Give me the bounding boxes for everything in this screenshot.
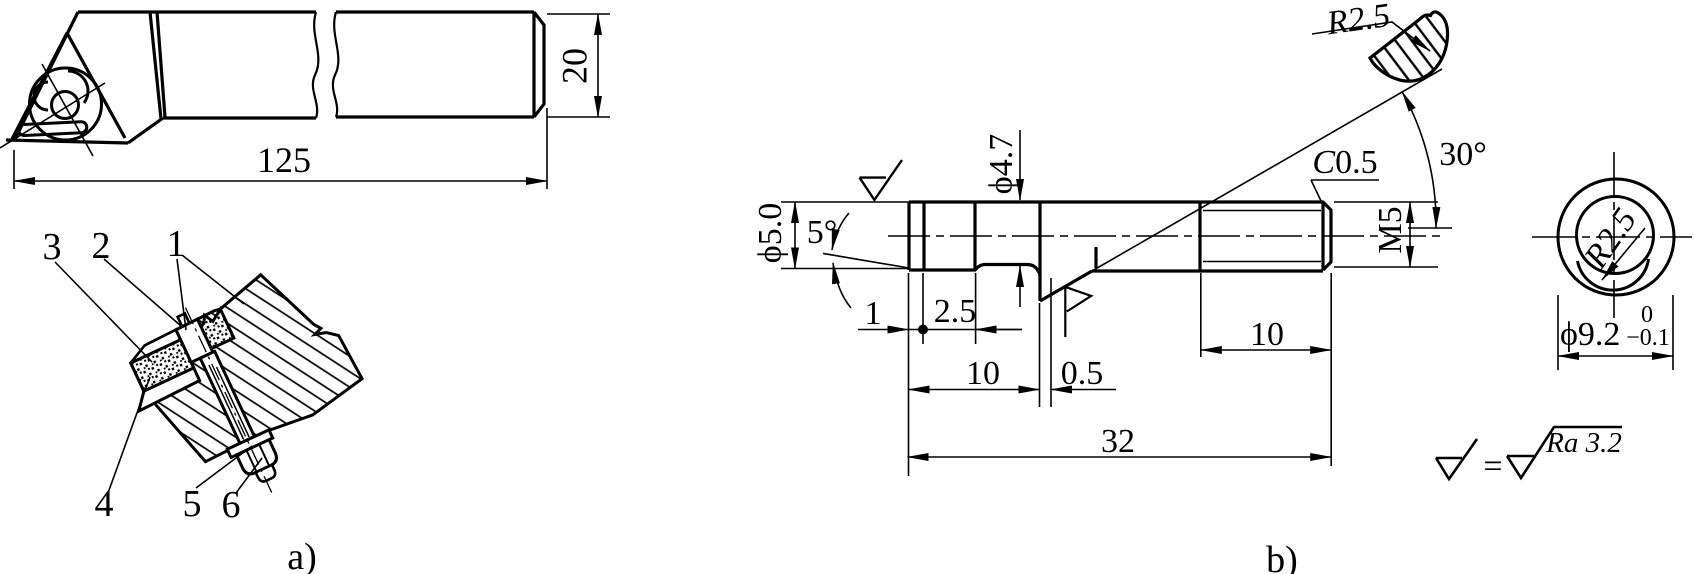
thread minor line top xyxy=(1203,210,1321,212)
break line left xyxy=(313,12,319,118)
legend symbol basic xyxy=(1436,439,1477,479)
screw bottom right xyxy=(1092,269,1323,272)
clamp joint line 1 xyxy=(150,12,161,119)
center line 2 xyxy=(42,64,93,156)
internal edge x1040 xyxy=(1038,202,1041,276)
PART_A_SIDEVIEW xyxy=(0,12,610,189)
dim 20 extension top xyxy=(547,13,610,15)
dim 1-2.5 shared line xyxy=(909,329,1023,331)
svg-text:2: 2 xyxy=(92,225,111,267)
M5 ext top xyxy=(1334,201,1438,203)
leader part4 xyxy=(108,377,150,493)
end view center vertical xyxy=(1613,152,1615,318)
ext x1051 xyxy=(1050,278,1052,407)
clamp wedge part4 xyxy=(132,368,200,411)
svg-text:Ra 3.2: Ra 3.2 xyxy=(1545,427,1622,459)
M5 dim line xyxy=(1409,202,1411,267)
clamp arc left xyxy=(34,82,48,110)
svg-text:a): a) xyxy=(287,536,317,574)
dim 32 line xyxy=(908,456,1332,458)
center line 1 xyxy=(0,83,105,148)
screw left edge xyxy=(907,202,910,270)
end view slant arc xyxy=(1578,259,1649,290)
R2.5 detail hatching xyxy=(1360,5,1455,90)
leader part2 xyxy=(104,259,181,326)
insert circle large xyxy=(30,68,102,140)
R2.5 leader in end view xyxy=(1602,228,1645,280)
svg-text:4: 4 xyxy=(95,483,114,525)
svg-text:−0.1: −0.1 xyxy=(1626,325,1670,351)
PART_B_SCREW xyxy=(781,69,1452,476)
dim 20 line xyxy=(597,14,599,117)
thread start edge xyxy=(1198,202,1201,270)
phi92 ext left xyxy=(1557,295,1559,370)
svg-text:ϕ4.7: ϕ4.7 xyxy=(983,134,1020,194)
screw axis line xyxy=(185,308,272,495)
5deg arc upper xyxy=(832,213,849,250)
dim 0.5 line xyxy=(1051,389,1116,391)
phi5 dim line xyxy=(794,202,796,269)
svg-text:10: 10 xyxy=(966,355,1000,392)
center line xyxy=(888,235,1445,237)
nut facet line 2 xyxy=(259,444,269,465)
screw shaft inner line 1 xyxy=(209,365,244,439)
break line right xyxy=(333,12,339,117)
leader part1 xyxy=(182,255,244,304)
30deg arc xyxy=(1402,92,1436,229)
svg-text:=: = xyxy=(1483,448,1502,485)
PART_A_DETAIL xyxy=(108,253,391,531)
head bottom edge xyxy=(6,140,128,143)
dim 10 thread line xyxy=(1201,349,1331,351)
shank bottom edge left xyxy=(163,116,316,119)
screw bottom left xyxy=(909,265,1040,302)
svg-text:10: 10 xyxy=(1250,316,1284,353)
30deg horizontal ref xyxy=(1408,227,1452,229)
section diagonal thin xyxy=(1092,69,1442,271)
PART_B_RIGHT xyxy=(1312,5,1692,479)
dim 2.5 arrow xyxy=(976,329,1022,331)
nut end cap xyxy=(256,465,277,483)
shim part3 (carbide, stippled) xyxy=(131,340,194,391)
svg-text:125: 125 xyxy=(257,140,311,180)
svg-text:1: 1 xyxy=(865,295,882,332)
insert left edge xyxy=(12,33,67,139)
M5 ext bottom xyxy=(1334,266,1438,268)
surface symbol on slant xyxy=(1065,287,1091,337)
screw shaft inner line 2 xyxy=(217,367,250,437)
leader part3 xyxy=(55,262,152,362)
clamp arc right xyxy=(68,71,88,103)
R2.5 detail shape xyxy=(1370,12,1448,81)
tool shank top edge left xyxy=(78,10,316,13)
body of tool head (hatched section) xyxy=(120,255,367,476)
phi5 ext top xyxy=(781,201,909,203)
nut facet line 1 xyxy=(246,450,256,471)
tool shank top edge right xyxy=(336,10,534,13)
slant small edge xyxy=(1094,247,1097,268)
head bottom bevel xyxy=(128,118,163,143)
washer xyxy=(227,430,272,458)
dim origin dot xyxy=(918,325,928,335)
ext x908 xyxy=(908,273,910,476)
dim 20 extension bottom xyxy=(547,116,610,118)
ext x1200 xyxy=(1200,273,1202,357)
end view outer circle xyxy=(1558,179,1674,295)
right end chamfer edge xyxy=(532,12,535,117)
svg-text:30°: 30° xyxy=(1439,136,1487,173)
svg-text:ϕ9.2: ϕ9.2 xyxy=(1560,316,1620,353)
5deg arc lower xyxy=(833,263,851,308)
ext x1331 xyxy=(1330,273,1332,466)
dim 10 lower line xyxy=(909,389,1040,391)
phi5 ext bottom xyxy=(781,268,909,270)
surface symbol top xyxy=(860,160,903,200)
clamp slot capsule xyxy=(19,122,87,136)
svg-text:3: 3 xyxy=(43,226,62,268)
R2.5 detail leader xyxy=(1312,22,1430,51)
svg-text:6: 6 xyxy=(222,484,241,526)
ext x923 xyxy=(922,273,924,344)
end view inner circle xyxy=(1577,197,1654,274)
C05 leader xyxy=(1311,180,1379,203)
svg-text:0.5: 0.5 xyxy=(1061,355,1104,392)
screw head band xyxy=(176,319,213,362)
dim 1 line xyxy=(858,329,909,331)
end view center horizontal xyxy=(1532,236,1692,238)
dim 125 line xyxy=(14,180,547,182)
shank bottom edge right xyxy=(336,115,534,118)
svg-text:b): b) xyxy=(1266,539,1298,574)
dim 125 extension left xyxy=(13,150,15,189)
svg-text:20: 20 xyxy=(554,48,594,84)
nut xyxy=(236,440,279,477)
dim 125 extension right xyxy=(546,108,548,189)
insert right edge xyxy=(67,33,125,138)
phi92 dim line xyxy=(1558,355,1673,357)
leader part5 xyxy=(196,446,252,488)
phi92 ext right xyxy=(1672,295,1674,370)
leader steep xyxy=(177,259,186,330)
phi47 arrow upper xyxy=(1019,130,1021,200)
right end chamfer xyxy=(534,12,544,117)
screw outline top xyxy=(909,202,1331,270)
screw head tab xyxy=(178,313,189,325)
shim strip above insert xyxy=(126,330,180,363)
svg-text:ϕ5.0: ϕ5.0 xyxy=(752,203,789,263)
internal edge x924 xyxy=(922,202,925,270)
chamfer edge xyxy=(1321,202,1324,270)
clamp joint line 2 xyxy=(157,12,165,117)
svg-text:2.5: 2.5 xyxy=(934,293,977,330)
phi47 arrow lower xyxy=(1019,266,1021,307)
screw slant tip edge xyxy=(1040,271,1092,301)
svg-text:5°: 5° xyxy=(807,214,838,251)
svg-text:5: 5 xyxy=(183,483,202,525)
svg-text:32: 32 xyxy=(1101,423,1135,460)
legend symbol Ra xyxy=(1507,427,1622,478)
insert hole circle xyxy=(52,92,79,119)
leader part6 xyxy=(236,458,262,493)
svg-text:M5: M5 xyxy=(1372,206,1409,253)
thread minor line bottom xyxy=(1203,261,1321,263)
insert part2 (carbide, stippled) xyxy=(197,308,234,348)
5deg taper line xyxy=(823,253,909,268)
ext x1039 xyxy=(1039,303,1041,407)
internal edge x975 xyxy=(973,202,976,270)
ext x975 xyxy=(975,273,977,344)
screw shaft xyxy=(200,351,254,443)
svg-text:C0.5: C0.5 xyxy=(1312,144,1377,181)
svg-text:1: 1 xyxy=(167,223,186,265)
head left slope xyxy=(14,12,78,141)
